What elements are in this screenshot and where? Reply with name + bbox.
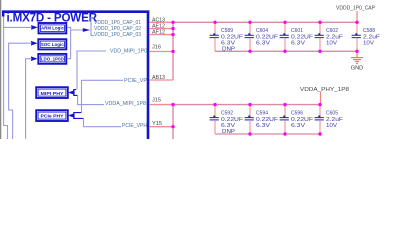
svg-text:J16: J16 — [152, 45, 161, 51]
bracket for VDDD_1P0_CAP labels — [91, 18, 94, 36]
wire PCIE_VP to PCIe PHY — [82, 80, 124, 112]
wire VDDA_MIPI_1P8 to MIPI PHY — [78, 96, 104, 105]
MIPI PHY feed bracket — [74, 90, 78, 96]
node rail C588/VDDD stub — [355, 21, 358, 24]
svg-text:VDD_MIPI_1P0: VDD_MIPI_1P0 — [110, 49, 148, 55]
svg-text:AC13: AC13 — [152, 17, 165, 23]
svg-text:C589: C589 — [221, 28, 233, 34]
wire top rail VDDA_PHY_1P8 — [173, 104, 320, 106]
chip block U1 left border stub — [2, 11, 4, 17]
wire top rail VDDD_1P0_CAP — [173, 21, 357, 23]
sub-block ARM Logic — [39, 23, 67, 33]
node rail2 C596 — [283, 103, 286, 106]
node AE12/bus — [171, 27, 174, 30]
node AF12/bus — [171, 33, 174, 36]
capacitor C592 — [210, 105, 244, 135]
svg-text:PCIE_VPH: PCIE_VPH — [122, 123, 147, 129]
node bottom rail2 C596 — [283, 132, 286, 135]
capacitor C589 — [210, 22, 244, 52]
wire vertical bus VDDA_PHY_1P8 — [172, 105, 174, 139]
node J15/bus — [171, 103, 174, 106]
internal feed wires (light blue) — [4, 17, 123, 140]
svg-text:10V: 10V — [326, 41, 337, 47]
svg-text:C601: C601 — [291, 28, 303, 34]
svg-text:C602: C602 — [326, 28, 338, 34]
arrow into PCIe PHY (from right) — [68, 113, 75, 118]
svg-text:C604: C604 — [256, 28, 268, 34]
ground symbol GND — [351, 51, 364, 71]
sub-block MIPI PHY — [36, 87, 68, 98]
wire PCIE_VPH to PCIe PHY — [84, 119, 122, 127]
node bottom rail C601 — [283, 50, 286, 53]
svg-text:DNP: DNP — [222, 129, 235, 135]
node J16/bus — [171, 50, 174, 53]
node rail C602 — [318, 21, 321, 24]
svg-text:0.22UF: 0.22UF — [256, 117, 279, 123]
svg-text:6.3V: 6.3V — [291, 123, 306, 129]
svg-text:2.2uF: 2.2uF — [326, 34, 344, 40]
wire LDO feed — [26, 59, 32, 139]
svg-text:C594: C594 — [256, 111, 268, 117]
junction dots — [171, 21, 358, 136]
svg-text:AB13: AB13 — [152, 75, 165, 81]
svg-text:VDDA_PHY_1P8: VDDA_PHY_1P8 — [300, 87, 349, 93]
node rail C604 — [248, 21, 251, 24]
arrow into SOC Logic — [31, 41, 38, 46]
svg-text:PCIe PHY: PCIe PHY — [41, 114, 64, 119]
svg-text:0.22UF: 0.22UF — [221, 117, 244, 123]
wire pin AB13 — [149, 79, 173, 81]
svg-text:6.3V: 6.3V — [291, 41, 306, 47]
svg-text:GND: GND — [351, 65, 364, 71]
wire SOC feed — [9, 43, 32, 139]
wire bottom rail top bank — [215, 50, 357, 52]
svg-text:0.22UF: 0.22UF — [221, 34, 244, 40]
PCIe PHY feed bracket — [74, 113, 84, 119]
node rail2 C592 — [213, 103, 216, 106]
node AC13/bus — [171, 21, 174, 24]
wire ARM box to VDDD arrow — [67, 27, 83, 30]
capacitor C605 — [315, 105, 344, 134]
arrow into ARM Logic — [31, 25, 38, 30]
chip block U1 i.MX7D top border — [2, 10, 149, 13]
wire vertical bus VDDD_1P0 — [172, 22, 174, 80]
svg-text:PCIE_VP: PCIE_VP — [124, 78, 147, 84]
wire pin Y15 — [149, 126, 173, 128]
capacitor C601 — [280, 22, 314, 51]
sub-block SOC Logic — [38, 39, 66, 49]
capacitor C594 — [245, 105, 279, 134]
svg-text:0.22UF: 0.22UF — [256, 34, 279, 40]
capacitor C602 — [315, 22, 344, 51]
node bottom rail GND — [355, 50, 358, 53]
node rail C601 — [283, 21, 286, 24]
svg-text:J15: J15 — [152, 97, 161, 103]
wire pin AC13 — [149, 21, 173, 23]
wire bottom rail bottom bank — [215, 133, 320, 135]
svg-text:C596: C596 — [291, 111, 303, 117]
svg-text:6.3V: 6.3V — [256, 123, 271, 129]
svg-text:SOC Logic: SOC Logic — [41, 42, 64, 47]
svg-text:2.2uF: 2.2uF — [363, 34, 381, 40]
node rail2 C605/VDDA stub — [318, 103, 321, 106]
svg-text:0.22UF: 0.22UF — [291, 117, 314, 123]
svg-text:C588: C588 — [363, 28, 375, 34]
svg-text:2.2uF: 2.2uF — [326, 117, 344, 123]
svg-text:10V: 10V — [326, 123, 337, 129]
svg-text:10V: 10V — [363, 41, 374, 47]
wire pin J15 — [149, 104, 173, 106]
wire VDD_MIPI_1P0 to MIPI PHY — [77, 51, 106, 89]
wire LDO box to VDDD riser — [67, 30, 71, 59]
capacitor C588 — [352, 22, 381, 51]
arrow into LDO_1P0D — [31, 56, 38, 61]
svg-text:6.3V: 6.3V — [256, 41, 271, 47]
wire pin J16 — [149, 51, 173, 53]
node rail C589 — [213, 21, 216, 24]
chip block U1 right border — [147, 11, 150, 140]
svg-text:LDO_1P0D: LDO_1P0D — [41, 56, 65, 61]
svg-text:MIPI PHY: MIPI PHY — [41, 91, 64, 96]
svg-text:ARM Logic: ARM Logic — [41, 26, 64, 31]
node bottom rail2 end C605 — [318, 132, 321, 135]
node Y15/bus — [171, 125, 174, 128]
sub-block PCIe PHY — [36, 110, 68, 121]
pin wires (outside, pink) — [149, 22, 357, 139]
svg-text:VDDD_1P0_CAP: VDDD_1P0_CAP — [336, 6, 375, 12]
node rail2 C594 — [248, 103, 251, 106]
svg-text:DNP: DNP — [222, 46, 235, 52]
node bottom rail C604 — [248, 50, 251, 53]
svg-text:0.22UF: 0.22UF — [291, 34, 314, 40]
power stub VDDD_1P0_CAP — [356, 11, 358, 22]
sub-block LDO_1P0D — [38, 54, 66, 64]
arrow into MIPI PHY (from right) — [68, 90, 75, 95]
svg-text:C605: C605 — [326, 111, 338, 117]
wire pin AE12 — [149, 28, 173, 30]
svg-text:VDDA_MIPI_1P8: VDDA_MIPI_1P8 — [105, 101, 147, 107]
svg-text:AF12: AF12 — [152, 30, 165, 36]
svg-text:VDDD_1P0_CAP_03: VDDD_1P0_CAP_03 — [94, 32, 142, 38]
arrow to VDDD_1P0_CAP labels — [83, 28, 90, 32]
capacitor C604 — [245, 22, 279, 51]
svg-text:Y15: Y15 — [152, 121, 162, 127]
page left border — [0, 0, 1, 139]
node bottom rail2 C594 — [248, 132, 251, 135]
node bottom rail C602 — [318, 50, 321, 53]
wire ARM feed — [4, 17, 32, 140]
capacitor C596 — [280, 105, 314, 134]
power stub VDDA_PHY_1P8 — [320, 92, 322, 105]
svg-text:C592: C592 — [221, 111, 233, 117]
wire pin AF12 — [149, 34, 173, 36]
